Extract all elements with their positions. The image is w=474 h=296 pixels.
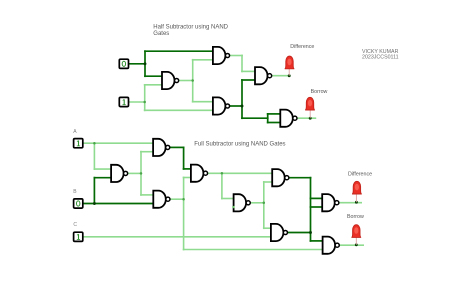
wire to G12 bottom input [183, 177, 191, 179]
wire to G10 bottom input [140, 151, 153, 153]
svg-text:Gates: Gates [153, 31, 169, 37]
wire G9 output [289, 177, 312, 179]
wire Y vertical [144, 84, 146, 111]
NAND gate G5 (borrow inverter gate) [280, 110, 297, 127]
input X value 0 [119, 59, 128, 68]
wire A vertical [93, 142, 95, 170]
wire X output [129, 63, 146, 65]
wire G6 out vertical [140, 151, 142, 196]
junction G13 output [263, 202, 266, 205]
wire A to G6 top input [94, 168, 112, 170]
junction G6 output [140, 172, 143, 175]
wire G8 output to LED node [339, 244, 364, 246]
NAND gate G8 (borrow output) [323, 237, 340, 254]
wire to G11 top input [140, 194, 153, 196]
wire G10 out vertical [183, 147, 185, 170]
wire G14 output [288, 232, 312, 234]
junction G3 output [241, 105, 244, 108]
wire to G3 top input [192, 101, 213, 103]
wire G2 output [230, 55, 243, 57]
wire Y to G1 bottom input [144, 84, 162, 86]
node G13 unconnected bottom input [232, 206, 234, 208]
wire G11 out vertical [183, 177, 185, 251]
junction G12 output [221, 172, 224, 175]
wire G10 output [170, 146, 185, 148]
NAND gate G2 (half subtractor top) [213, 47, 230, 64]
svg-text:Full Subtractor using NAND Gat: Full Subtractor using NAND Gates [194, 142, 285, 148]
wire G11 output [170, 198, 185, 200]
wire X to G1 top input [144, 75, 162, 77]
wire G12 output to G9 top input [208, 172, 273, 174]
wire G5 top input [267, 113, 281, 115]
wire to G12 top input [183, 168, 191, 170]
wire B vertical [93, 177, 95, 205]
svg-text:Borrow: Borrow [347, 214, 364, 220]
wire B to G11 bottom input [82, 203, 153, 205]
wire B to G6 bottom input [94, 177, 112, 179]
wire to G7 bottom input [310, 206, 323, 208]
node LED2 connection [309, 117, 312, 120]
NAND gate G7 (difference output) [322, 194, 339, 211]
LED D4 borrow (full subtractor) [352, 225, 361, 245]
svg-text:C: C [73, 222, 77, 228]
svg-text:Half Subtractor using NAND: Half Subtractor using NAND [153, 25, 228, 31]
NAND gate G4 (difference output gate) [255, 67, 272, 84]
wire X vertical [144, 50, 146, 77]
input Y value 1 [119, 97, 128, 106]
junction X wire [144, 62, 147, 65]
wire to G8 top input [310, 240, 323, 242]
NAND gate G3 (half subtractor bottom) [213, 97, 230, 114]
node LED1 connection [288, 74, 291, 77]
junction A wire [93, 142, 96, 145]
wire G3 output [230, 105, 243, 107]
wire G13 out vertical [263, 181, 265, 229]
wire G4 output to LED node [272, 75, 290, 77]
wire G3 out vertical [241, 79, 243, 119]
input C value 1 [74, 232, 83, 241]
wire G6 output [128, 172, 142, 174]
node LED4 connection [355, 243, 358, 246]
wire C to G14 bottom input [82, 236, 271, 238]
wire to G5 split [241, 117, 269, 119]
NAND gate G11 (xor stage bottom) [153, 191, 170, 208]
NAND gate G13 (second stage) [234, 194, 251, 211]
NAND gate G14 (second xor bottom) [271, 224, 288, 241]
NAND gate G10 (xor stage top) [153, 139, 170, 156]
wire to G4 top input [241, 70, 255, 72]
wire G5 input vertical [267, 113, 269, 123]
wire to G4 bottom input [241, 79, 255, 81]
wire G7 output to LED node [339, 202, 362, 204]
LED D3 difference (full subtractor) [352, 181, 361, 202]
LED D1 difference (half subtractor) [285, 56, 294, 76]
input B value 0 [74, 199, 83, 208]
NAND gate G12 (xor output A xor B) [191, 165, 208, 182]
svg-text:Difference: Difference [348, 171, 372, 177]
wire G5 bottom input [267, 122, 281, 124]
wire G12 out vertical [221, 172, 223, 199]
wire to G14 top input [263, 227, 271, 229]
wire G1 output [179, 80, 194, 82]
svg-text:2023JCCS0111: 2023JCCS0111 [362, 55, 399, 61]
wire G2 out vertical [241, 55, 243, 73]
NAND gate G1 (half subtractor input stage) [162, 72, 179, 89]
NAND gate G6 (A,B first stage) [111, 165, 128, 182]
wire to G13 top input [221, 198, 234, 200]
junction G11 output [182, 198, 185, 201]
wire G13 output [250, 202, 265, 204]
input A value 1 [74, 139, 83, 148]
wire bus vertical to G7 G8 [310, 177, 312, 242]
junction G14 output [309, 231, 312, 234]
svg-text:Difference: Difference [290, 44, 314, 50]
wire G1 out vertical [192, 59, 194, 103]
junction B wire [93, 202, 96, 205]
wire to G9 bottom input [263, 181, 272, 183]
junction G1 output [191, 79, 194, 82]
LED D2 borrow (half subtractor) [306, 97, 315, 118]
wire to G2 bottom input [192, 59, 213, 61]
junction Y wire [143, 101, 146, 104]
wire G5 output to LED node [297, 117, 316, 119]
wire to G7 top input [310, 197, 323, 199]
NAND gate G9 (second xor top) [272, 169, 289, 186]
node LED3 connection [355, 201, 358, 204]
wire X to G2 top input [144, 50, 213, 52]
wire Y output [129, 101, 146, 103]
wire Y to G3 bottom input [144, 109, 213, 111]
wire to G8 bottom input [183, 249, 323, 251]
svg-text:Borrow: Borrow [311, 89, 328, 95]
wire A to G10 top input [82, 142, 153, 144]
